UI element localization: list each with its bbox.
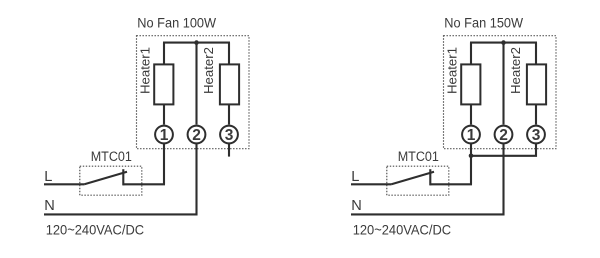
switch blade (MTC01 contact arm) [391, 172, 434, 184]
resistor Heater1 (heating element) [461, 64, 480, 104]
wire: terminal 2 lead from junction down to circle 2 [502, 43, 504, 125]
resistor Heater2 (heating element) [527, 64, 546, 104]
svg-text:2: 2 [192, 127, 201, 144]
svg-text:No Fan 150W: No Fan 150W [444, 16, 523, 31]
wire: L input lead into switch [351, 183, 391, 185]
terminal 2 (circled pin 2) [495, 126, 513, 144]
svg-text:120~240VAC/DC: 120~240VAC/DC [46, 222, 144, 237]
terminal 2 (circled pin 2) [188, 126, 206, 144]
switch MTC01 dashed box [387, 166, 449, 195]
svg-text:Heater2: Heater2 [201, 47, 216, 94]
switch fixed contact post [429, 169, 431, 185]
wire: Heater1 bottom lead to terminal 1 [163, 104, 165, 124]
wire: terminal 2 lead from junction down to circle 2 [195, 43, 197, 125]
wire: jumper from terminal 3 to terminal 1 line [471, 144, 536, 156]
svg-text:1: 1 [467, 127, 476, 144]
wire: switch output to terminal 1 line [430, 183, 472, 185]
terminal 3 (circled pin 3) [527, 126, 545, 144]
enclosure dashed box (thermostat body) (left) [137, 36, 250, 149]
junction dot: jumper joins terminal 1 wire [469, 154, 474, 159]
terminal 1 (circled pin 1) [155, 126, 173, 144]
wire: terminal 3 open stub [228, 144, 230, 157]
wire: terminal 2 down and left to N line [351, 144, 504, 215]
switch fixed contact post [122, 169, 124, 185]
terminal 3 (circled pin 3) [220, 126, 238, 144]
svg-text:Heater1: Heater1 [138, 47, 153, 94]
terminal 1 (circled pin 1) [462, 126, 480, 144]
junction dot: node joining terminal 2 to heater bus [194, 40, 199, 45]
junction dot: node joining terminal 2 to heater bus [501, 40, 506, 45]
svg-text:3: 3 [225, 127, 234, 144]
wire: switch output to terminal 1 line [123, 183, 165, 185]
svg-text:1: 1 [160, 127, 169, 144]
resistor Heater2 (heating element) [220, 64, 239, 104]
resistor Heater1 (heating element) [154, 64, 173, 104]
wire: terminal 1 down to switch output [163, 144, 165, 185]
svg-text:MTC01: MTC01 [398, 149, 439, 164]
wire: Heater1 top lead [470, 43, 472, 65]
switch MTC01 dashed box [80, 166, 142, 195]
wire: terminal 2 down and left to N line [44, 144, 197, 215]
svg-text:N: N [44, 198, 55, 214]
wire: Heater1 bottom lead to terminal 1 [470, 104, 472, 124]
svg-text:L: L [351, 169, 359, 185]
svg-text:L: L [44, 169, 52, 185]
wire: L input lead into switch [44, 183, 84, 185]
wire: Heater2 bottom lead to terminal 3 [228, 104, 230, 124]
wire: top bus from Heater1 top to Heater2 top [163, 42, 230, 44]
svg-text:N: N [351, 198, 362, 214]
wire: terminal 1 down to switch output [470, 144, 472, 185]
svg-text:120~240VAC/DC: 120~240VAC/DC [353, 222, 451, 237]
enclosure dashed box (thermostat body) (right) [444, 36, 557, 149]
svg-text:2: 2 [499, 127, 508, 144]
switch blade (MTC01 contact arm) [84, 172, 127, 184]
wire: Heater1 top lead [163, 43, 165, 65]
right diagram: No Fan 150W [351, 16, 556, 238]
wire: top bus from Heater1 top to Heater2 top [470, 42, 537, 44]
svg-text:MTC01: MTC01 [91, 149, 132, 164]
wire: Heater2 top lead [228, 43, 230, 65]
svg-text:Heater2: Heater2 [508, 47, 523, 94]
wire: Heater2 bottom lead to terminal 3 [535, 104, 537, 124]
svg-text:3: 3 [532, 127, 541, 144]
wire: Heater2 top lead [535, 43, 537, 65]
svg-text:Heater1: Heater1 [445, 47, 460, 94]
left diagram: No Fan 100W [44, 16, 249, 238]
svg-text:No Fan 100W: No Fan 100W [137, 16, 216, 31]
